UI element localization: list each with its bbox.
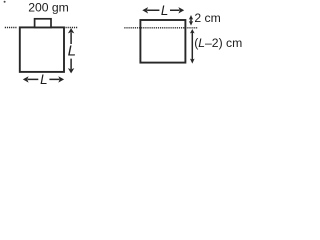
200 gm weight box bbox=[35, 19, 51, 28]
svg-text:L: L bbox=[40, 72, 47, 87]
left vertical dimension L: up arrowhead bbox=[68, 28, 74, 33]
left block (floating cube) bbox=[20, 27, 64, 72]
2 cm double arrow bbox=[190, 18, 192, 24]
right top dimension L: left arrowhead bbox=[142, 7, 148, 13]
left bottom dimension L: shafts bbox=[28, 78, 60, 80]
stray speck top-left bbox=[4, 1, 6, 3]
right top dimension L: right arrowhead bbox=[178, 7, 184, 13]
svg-text:(L–2) cm: (L–2) cm bbox=[194, 36, 242, 50]
svg-text:200 gm: 200 gm bbox=[28, 1, 69, 15]
svg-text:L: L bbox=[68, 42, 76, 59]
svg-text:2 cm: 2 cm bbox=[194, 11, 220, 25]
water line middle segment bbox=[66, 27, 78, 29]
(L-2) cm dimension arrow bbox=[191, 33, 193, 61]
left bottom dimension L: left arrowhead bbox=[23, 76, 29, 82]
right top dimension L: shafts bbox=[147, 9, 179, 11]
water line left segment bbox=[5, 27, 17, 29]
left bottom dimension L: right arrowhead bbox=[58, 76, 64, 82]
left vertical dimension L: shaft bbox=[70, 33, 72, 70]
right square bbox=[140, 20, 185, 63]
water line right segment bbox=[124, 27, 198, 29]
svg-text:L: L bbox=[161, 3, 168, 18]
left vertical dimension L: down arrowhead bbox=[68, 68, 74, 73]
